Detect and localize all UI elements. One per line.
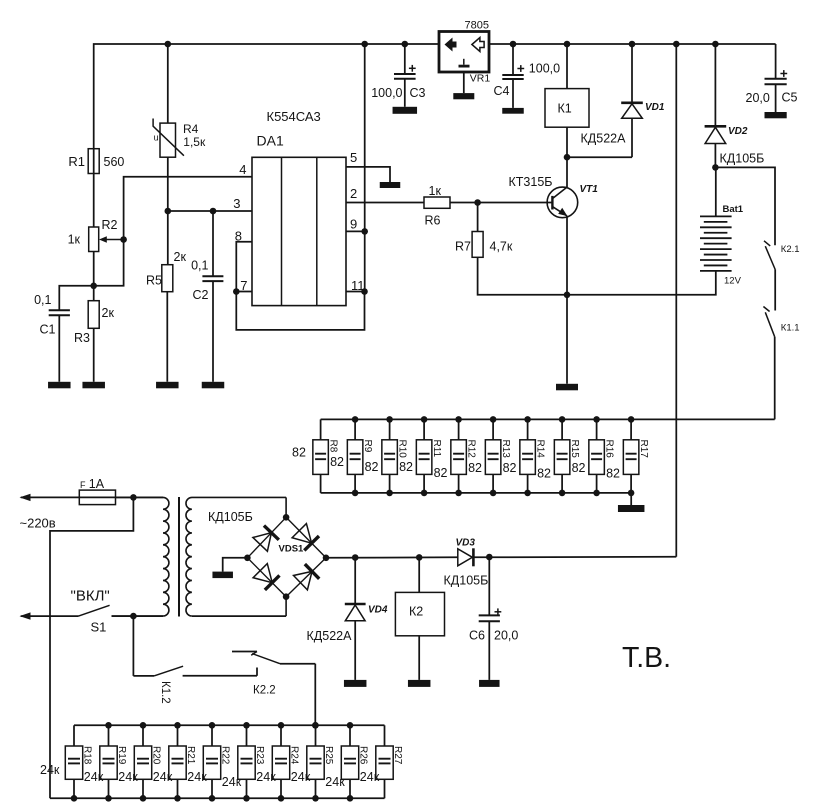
node out-VD4 (352, 554, 359, 561)
node bank1 bottom R9 (352, 490, 359, 497)
node bank1 top R14 (524, 416, 531, 423)
svg-text:2: 2 (350, 186, 357, 201)
wire mains1 to primary (133, 496, 163, 498)
battery Bat1 12V (715, 167, 717, 216)
svg-text:100,0: 100,0 (371, 86, 402, 100)
svg-text:R13: R13 (500, 440, 511, 459)
svg-text:R6: R6 (425, 214, 441, 228)
contact K2.1 (715, 167, 775, 245)
resistor R5 (162, 265, 173, 292)
svg-text:R16: R16 (604, 440, 615, 459)
node K1-VD1-collector (564, 154, 571, 161)
svg-text:S1: S1 (91, 619, 107, 634)
svg-text:R15: R15 (569, 440, 580, 459)
svg-text:82: 82 (330, 455, 344, 469)
svg-text:7805: 7805 (465, 19, 489, 31)
node bank1 top R13 (490, 416, 497, 423)
wire secondary bottom (192, 615, 286, 617)
svg-text:82: 82 (399, 460, 413, 474)
svg-text:24к: 24к (325, 775, 345, 789)
svg-text:R11: R11 (431, 440, 442, 458)
resistor R12 82 (458, 419, 460, 439)
node bank1 bottom R15 (559, 490, 566, 497)
node R2R3-C1 (90, 283, 97, 290)
wire pin 2 to R6 (346, 202, 424, 204)
wire bank1 bottom rail (321, 492, 632, 494)
node pin11 (361, 288, 368, 295)
node bank1 top R16 (593, 416, 600, 423)
node bank2 top R20 (140, 722, 147, 729)
node bank1 bottom R11 (421, 490, 428, 497)
node bank2 top R25 (312, 722, 319, 729)
node bank2 top R19 (105, 722, 112, 729)
wire node to VD1 (567, 156, 632, 158)
ground pin5 (380, 182, 401, 188)
wire bank2 top rail (74, 724, 385, 726)
wire R2 wiper to pin4 and to R3 junction (94, 177, 252, 286)
switch S1 VKL (79, 605, 110, 616)
wire bridge output (326, 556, 458, 559)
svg-text:С2: С2 (193, 288, 209, 302)
svg-text:24к: 24к (84, 770, 104, 784)
bridge rectifier VDS1 (285, 497, 287, 517)
svg-text:24к: 24к (40, 763, 60, 777)
wire R17 to ground (630, 493, 632, 505)
resistor R8 82 (320, 419, 322, 439)
svg-text:VD3: VD3 (456, 538, 476, 549)
svg-text:82: 82 (365, 460, 379, 474)
svg-text:1к: 1к (68, 233, 81, 247)
svg-text:С3: С3 (410, 86, 426, 100)
node bridge left (244, 555, 251, 562)
wire pin 11 stub (346, 291, 365, 293)
mains arrow line 2 (21, 615, 79, 617)
node out-K2 (416, 554, 423, 561)
svg-text:100,0: 100,0 (529, 61, 560, 75)
R2 wiper arrow (104, 239, 124, 241)
svg-text:20,0: 20,0 (494, 629, 518, 643)
wire R4-R5 (167, 157, 169, 265)
capacitor C3 (404, 44, 406, 74)
svg-text:2к: 2к (174, 250, 187, 264)
resistor R11 82 (423, 419, 425, 439)
svg-text:4: 4 (239, 162, 246, 177)
transistor Q VT1 KT315B (547, 187, 578, 218)
svg-text:9: 9 (350, 217, 357, 232)
svg-text:24к: 24к (222, 775, 242, 789)
svg-text:КТ315Б: КТ315Б (509, 175, 553, 189)
svg-text:VR1: VR1 (470, 72, 491, 84)
wire R7 to emitter line (478, 257, 567, 295)
ground VD4 (344, 680, 367, 687)
resistor R13 82 (492, 419, 494, 439)
svg-text:R2: R2 (102, 218, 118, 232)
node emitter-batt (564, 292, 571, 299)
svg-text:82: 82 (606, 467, 620, 481)
svg-text:1к: 1к (429, 184, 442, 198)
wire emitter to ground (566, 216, 568, 384)
wire vertical x365 from rail to pin11 (364, 44, 366, 292)
ground R3 (82, 382, 105, 389)
svg-text:82: 82 (292, 446, 306, 460)
svg-text:R21: R21 (185, 746, 196, 765)
wire bridge left to ground (223, 558, 248, 572)
svg-text:R14: R14 (535, 440, 546, 459)
wire K2-ground (418, 636, 420, 680)
svg-text:82: 82 (434, 466, 448, 480)
svg-text:R22: R22 (219, 746, 230, 765)
svg-text:R26: R26 (357, 746, 368, 765)
svg-text:24к: 24к (256, 770, 276, 784)
svg-text:R10: R10 (397, 440, 408, 459)
svg-text:С1: С1 (40, 323, 56, 337)
node rail-VD1 (629, 41, 636, 48)
ground VT1 emitter (556, 384, 578, 391)
node rail-K1 (564, 41, 571, 48)
node mains2 (130, 613, 137, 620)
resistor R1 (88, 149, 99, 174)
svg-text:82: 82 (468, 461, 482, 475)
svg-text:3: 3 (233, 196, 240, 211)
capacitor C2 (212, 211, 214, 276)
svg-text:4,7к: 4,7к (490, 240, 513, 254)
svg-text:КД105Б: КД105Б (208, 510, 253, 524)
svg-text:С6: С6 (469, 629, 485, 643)
svg-text:24к: 24к (360, 770, 380, 784)
ground C3 (393, 107, 418, 114)
svg-text:R3: R3 (74, 331, 90, 345)
node R2 wiper (120, 236, 127, 243)
resistor R24 24k (280, 725, 282, 746)
diode VD4 KD522A (354, 558, 356, 605)
diode VD3 KD105B (458, 549, 473, 566)
node bank1 bottom R13 (490, 490, 497, 497)
svg-text:"ВКЛ": "ВКЛ" (71, 588, 110, 605)
ground bridge (212, 572, 233, 579)
node bank2 top R24 (278, 722, 285, 729)
wire pin 9 stub (346, 230, 365, 232)
node bank1 bottom R17 (628, 490, 635, 497)
resistor R26 24k (349, 725, 351, 746)
capacitor C1 (59, 286, 93, 311)
resistor R16 82 (596, 419, 598, 439)
relay coil K1 (566, 44, 568, 89)
node K2.2-bank2 (312, 722, 319, 729)
resistor R25 24k (315, 725, 317, 746)
node bank2 bottom R21 (174, 795, 181, 802)
svg-text:С5: С5 (782, 91, 798, 105)
ground C2 (202, 382, 225, 389)
bridge diode bottom-right (294, 571, 313, 590)
node bank1 top R10 (386, 416, 393, 423)
capacitor C4 (512, 44, 514, 75)
resistor R23 24k (246, 725, 248, 746)
svg-text:C4: C4 (494, 84, 510, 98)
resistor R9 82 (354, 419, 356, 439)
node base-R7 (474, 199, 481, 206)
ground C1 (48, 382, 71, 389)
resistor R18 24k (73, 725, 75, 746)
svg-text:Т.В.: Т.В. (622, 642, 671, 674)
potentiometer R2 (89, 227, 99, 252)
relay coil K2 (418, 557, 420, 592)
node bank2 bottom R19 (105, 795, 112, 802)
bridge diode left-bottom (253, 564, 272, 583)
node pin3-R4R5 (165, 208, 172, 215)
svg-text:5: 5 (350, 150, 357, 165)
svg-text:R8: R8 (328, 440, 339, 453)
node rail-R4 (165, 41, 172, 48)
svg-text:R1: R1 (68, 154, 85, 169)
svg-text:R25: R25 (323, 746, 334, 765)
resistor R14 82 (527, 419, 529, 439)
node bridge top (283, 514, 290, 521)
svg-text:VDS1: VDS1 (279, 544, 305, 555)
svg-text:К2.1: К2.1 (781, 244, 800, 255)
node bridge bottom (283, 593, 290, 600)
svg-text:R18: R18 (81, 746, 92, 765)
node rail-x365 (361, 41, 368, 48)
svg-text:82: 82 (572, 461, 586, 475)
resistor R19 24k (108, 725, 110, 746)
wire R2-R3 (93, 252, 95, 301)
wire VR1-ground (463, 72, 465, 93)
diode VD2 (714, 44, 716, 126)
svg-text:20,0: 20,0 (746, 91, 770, 105)
node bank1 top R9 (352, 416, 359, 423)
wire pin 5 to ground (346, 167, 390, 182)
node bank2 top R23 (243, 722, 250, 729)
transformer T1 primary (133, 497, 169, 616)
bridge diode left-top (253, 533, 272, 552)
svg-text:24к: 24к (187, 770, 207, 784)
wire K1-node (566, 127, 568, 157)
resistor R21 24k (177, 725, 179, 746)
svg-text:R4: R4 (183, 122, 199, 136)
resistor R10 82 (389, 419, 391, 439)
fuse F 1A (79, 490, 115, 505)
node pin7 (233, 288, 240, 295)
node mains1 (130, 494, 137, 501)
ground K2 (408, 680, 431, 687)
node bank2 bottom R18 (71, 795, 78, 802)
comparator U DA1 K554CA3 (252, 157, 346, 305)
wire R6-base (450, 202, 552, 204)
svg-text:R7: R7 (455, 240, 471, 254)
svg-text:VD1: VD1 (645, 102, 665, 113)
wire mains1 branch to bank2 (50, 497, 133, 798)
svg-text:R9: R9 (362, 440, 373, 453)
svg-text:~220в: ~220в (20, 515, 56, 530)
svg-text:R20: R20 (150, 746, 161, 765)
svg-text:24к: 24к (291, 770, 311, 784)
svg-text:К1: К1 (558, 102, 572, 116)
svg-text:560: 560 (104, 155, 125, 169)
wire R1-R2 (93, 174, 95, 228)
capacitor C5 (775, 44, 777, 79)
svg-text:R19: R19 (116, 746, 127, 765)
node pin9 (361, 228, 368, 235)
ground R5 (156, 382, 179, 389)
svg-text:R27: R27 (392, 746, 403, 765)
node bank1 top R12 (455, 416, 462, 423)
svg-text:К1.1: К1.1 (781, 323, 800, 334)
svg-text:К2.2: К2.2 (253, 685, 276, 697)
svg-text:12V: 12V (724, 275, 742, 286)
node bank1 bottom R10 (386, 490, 393, 497)
svg-text:F: F (80, 480, 86, 490)
wire bank2 bottom rail (50, 797, 385, 799)
svg-text:1А: 1А (89, 477, 105, 491)
mains arrow line 1 (21, 496, 134, 498)
node bank2 top R22 (209, 722, 216, 729)
svg-text:0,1: 0,1 (34, 293, 51, 307)
ground C5 (765, 112, 787, 118)
node VD2-batt-K21 (712, 164, 719, 171)
node bank1 bottom R14 (524, 490, 531, 497)
svg-text:КД105Б: КД105Б (720, 152, 765, 166)
svg-text:24к: 24к (118, 770, 138, 784)
svg-text:24к: 24к (153, 770, 173, 784)
svg-text:Bat1: Bat1 (723, 204, 744, 215)
node bank2 top R21 (174, 722, 181, 729)
wire pin 8 stub (236, 242, 252, 292)
svg-text:К554СА3: К554СА3 (267, 109, 321, 124)
svg-text:R17: R17 (638, 440, 649, 459)
node out-C6 (486, 554, 493, 561)
node bank2 bottom R26 (347, 795, 354, 802)
node bank2 bottom R22 (209, 795, 216, 802)
svg-text:u: u (154, 133, 159, 143)
node bank1 top R15 (559, 416, 566, 423)
svg-text:0,1: 0,1 (191, 259, 208, 273)
svg-text:82: 82 (503, 461, 517, 475)
svg-text:R23: R23 (254, 746, 265, 765)
wire top +rail left segment (94, 44, 439, 174)
node bank2 top R26 (347, 722, 354, 729)
svg-text:R5: R5 (146, 274, 162, 288)
wire battery negative (567, 271, 716, 295)
node bank1 top R11 (421, 416, 428, 423)
svg-text:DA1: DA1 (257, 133, 284, 149)
node rail-C4 (510, 41, 517, 48)
wire top +rail right segment (489, 43, 776, 45)
node rail-C3 (402, 41, 409, 48)
svg-text:VD2: VD2 (728, 126, 748, 137)
wire R5-ground (166, 292, 168, 382)
varistor R4 (167, 44, 169, 123)
resistor R22 24k (211, 725, 213, 746)
svg-text:VD4: VD4 (368, 605, 388, 616)
svg-text:1,5к: 1,5к (183, 135, 206, 149)
wire R3-ground (93, 328, 95, 382)
regulator VR1 7805 (439, 32, 489, 73)
svg-text:К1.2: К1.2 (159, 681, 171, 704)
resistor R15 82 (561, 419, 563, 439)
contact K2.2 (232, 651, 257, 653)
svg-text:КД105Б: КД105Б (444, 574, 489, 588)
node bank2 bottom R20 (140, 795, 147, 802)
wire K2.2 to bank2 rail (314, 664, 316, 726)
svg-text:КД522А: КД522А (307, 629, 353, 643)
svg-text:2к: 2к (102, 306, 115, 320)
resistor R6 (424, 197, 450, 208)
wire pin 7 loop (236, 292, 364, 330)
resistor R20 24k (142, 725, 144, 746)
node bank1 bottom R16 (593, 490, 600, 497)
transformer core (178, 497, 180, 617)
ground R17 (618, 505, 645, 512)
resistor R17 82 (630, 419, 632, 439)
svg-text:К2: К2 (409, 605, 423, 619)
svg-text:R12: R12 (466, 440, 477, 459)
wire K1.1 to bank rail (774, 337, 776, 420)
svg-text:КД522А: КД522А (581, 132, 627, 146)
node rail-VD2 (712, 41, 719, 48)
wire S1 node down to K1.2 (132, 616, 134, 676)
wire bank1 top rail (321, 418, 775, 420)
contact K1.2 (133, 675, 154, 677)
node bank1 top R17 (628, 416, 635, 423)
svg-text:VT1: VT1 (580, 184, 599, 195)
node pin3-C2 (210, 208, 217, 215)
diode VD1 (631, 44, 633, 103)
ground C6 (479, 680, 500, 687)
svg-text:82: 82 (537, 467, 551, 481)
resistor R27 24k (384, 725, 386, 746)
svg-text:R24: R24 (288, 746, 299, 765)
node bridge right (323, 555, 330, 562)
node bank2 bottom R25 (312, 795, 319, 802)
ground VR1 (453, 93, 474, 99)
transformer T1 secondary (186, 497, 286, 616)
wire collector (566, 157, 568, 187)
node bank2 bottom R24 (278, 795, 285, 802)
node bank2 bottom R23 (243, 795, 250, 802)
contact K1.1 (774, 270, 776, 311)
resistor R3 (88, 301, 99, 329)
node bank1 bottom R12 (455, 490, 462, 497)
capacitor C6 (488, 557, 490, 615)
node rail-charge (673, 41, 680, 48)
wire charge line vertical x676 (675, 44, 677, 557)
bridge diode top-right (292, 524, 312, 544)
ground C4 (502, 108, 524, 114)
resistor R7 (477, 203, 479, 232)
wire pin3 (168, 210, 252, 212)
wire primary bottom (112, 615, 164, 617)
